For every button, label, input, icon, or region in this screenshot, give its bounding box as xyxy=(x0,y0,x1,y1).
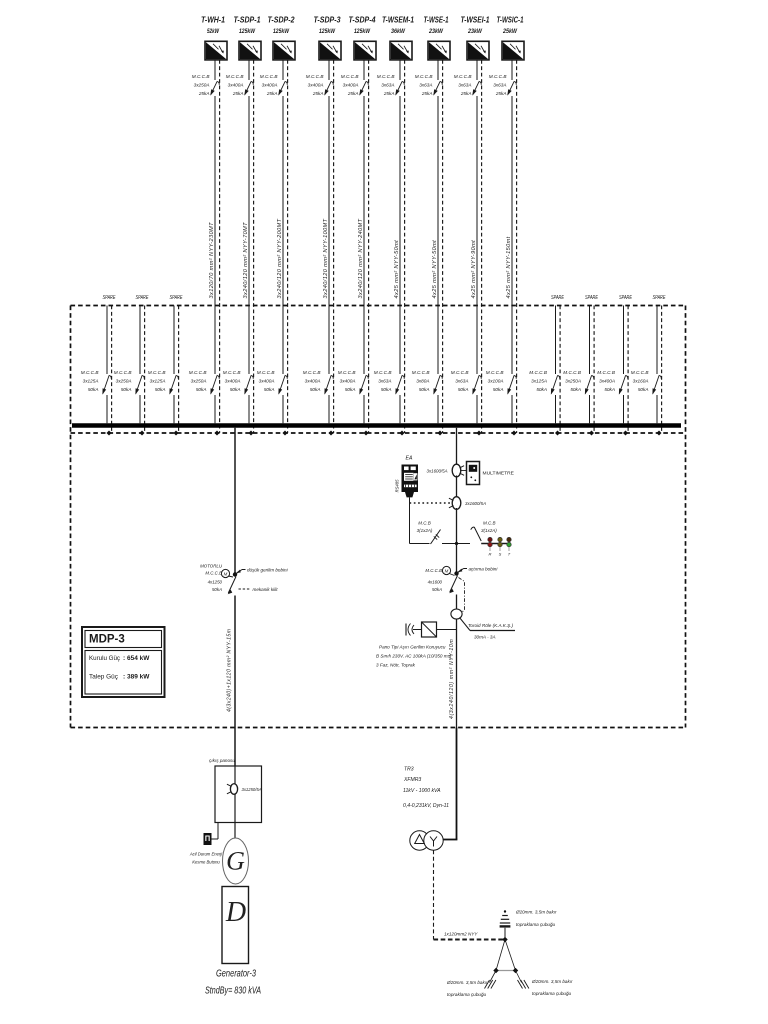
svg-text:çıkış panosu: çıkış panosu xyxy=(209,758,235,763)
svg-text:MOTORLU: MOTORLU xyxy=(200,564,223,569)
svg-text:M.C.C.B: M.C.C.B xyxy=(489,74,507,79)
svg-text:M.C.C.B: M.C.C.B xyxy=(631,370,649,375)
svg-text:3x1250/5A: 3x1250/5A xyxy=(242,787,262,792)
svg-text:25kA: 25kA xyxy=(266,91,278,96)
svg-text:M.C.C.B: M.C.C.B xyxy=(377,74,395,79)
svg-text:3x63A: 3x63A xyxy=(458,83,471,88)
svg-text:3x250A: 3x250A xyxy=(116,379,132,384)
svg-text:50kA: 50kA xyxy=(121,387,132,392)
svg-text:50kA: 50kA xyxy=(230,387,241,392)
svg-text:3(1x2A): 3(1x2A) xyxy=(417,528,433,533)
svg-text:3x240/120 mm² NYY-240MT: 3x240/120 mm² NYY-240MT xyxy=(358,218,364,298)
svg-text:25kA: 25kA xyxy=(198,91,210,96)
svg-text:125kW: 125kW xyxy=(319,28,335,35)
svg-text:M.C.C.B: M.C.C.B xyxy=(148,370,166,375)
svg-text:XFMR3: XFMR3 xyxy=(403,777,421,783)
svg-text:M.C.C.B: M.C.C.B xyxy=(415,74,433,79)
svg-text:50kA: 50kA xyxy=(345,387,356,392)
svg-text:açtırma bobini: açtırma bobini xyxy=(469,567,499,572)
svg-text:3x125A: 3x125A xyxy=(531,379,547,384)
svg-text:M.C.C.B: M.C.C.B xyxy=(529,370,547,375)
svg-text:M.C.C.B: M.C.C.B xyxy=(192,74,210,79)
svg-text:125kW: 125kW xyxy=(239,28,255,35)
svg-text:36kW: 36kW xyxy=(391,28,405,35)
svg-text:50kA: 50kA xyxy=(196,387,207,392)
svg-text:3x400A: 3x400A xyxy=(228,83,244,88)
svg-text:M.C.C.B: M.C.C.B xyxy=(341,74,359,79)
svg-text:4x25 mm² NYY-50mt: 4x25 mm² NYY-50mt xyxy=(432,240,438,299)
svg-text:mekanik kilit: mekanik kilit xyxy=(253,587,279,592)
svg-text:50kA: 50kA xyxy=(638,387,649,392)
svg-text:3x250A: 3x250A xyxy=(565,379,581,384)
svg-text:52kW: 52kW xyxy=(207,28,219,35)
svg-text:25kW: 25kW xyxy=(502,28,517,35)
svg-text:Acil Durum Enerji: Acil Durum Enerji xyxy=(189,852,223,857)
svg-text:3x400A: 3x400A xyxy=(259,379,275,384)
svg-text:4(3x240/120) mm² NYY-10m: 4(3x240/120) mm² NYY-10m xyxy=(449,639,455,719)
svg-text:M.C.C.B: M.C.C.B xyxy=(257,370,275,375)
svg-text:3x120/70 mm² NYY-230MT: 3x120/70 mm² NYY-230MT xyxy=(209,222,215,299)
svg-text:T-SDP-3: T-SDP-3 xyxy=(314,15,341,25)
svg-text:Toroid Röle (K.A.K.Ş.): Toroid Röle (K.A.K.Ş.) xyxy=(468,623,513,628)
svg-text:3x100A: 3x100A xyxy=(488,379,504,384)
svg-text:MDP-3: MDP-3 xyxy=(89,634,125,646)
svg-text:4(3x240)+1x120 mm² NYY-15m: 4(3x240)+1x120 mm² NYY-15m xyxy=(227,628,233,712)
svg-text:Generator-3: Generator-3 xyxy=(216,969,256,980)
svg-text:M.C.C.B: M.C.C.B xyxy=(451,370,469,375)
svg-text:50kA: 50kA xyxy=(419,387,430,392)
svg-text:M.C.C.B: M.C.C.B xyxy=(226,74,244,79)
svg-text:M.C.C.B: M.C.C.B xyxy=(425,568,442,573)
svg-text:25kA: 25kA xyxy=(383,91,395,96)
svg-text:4x1600: 4x1600 xyxy=(428,580,443,585)
svg-text:SPARE: SPARE xyxy=(136,295,149,301)
svg-text:T-WSE-1: T-WSE-1 xyxy=(424,15,449,25)
svg-text:50kA: 50kA xyxy=(212,587,222,592)
svg-text:G: G xyxy=(226,847,245,876)
svg-text:50kA: 50kA xyxy=(310,387,321,392)
svg-text:50kA: 50kA xyxy=(604,387,615,392)
svg-text:3x1600/5A: 3x1600/5A xyxy=(427,469,448,474)
svg-text:3x400A: 3x400A xyxy=(262,83,278,88)
svg-text:SPARE: SPARE xyxy=(585,295,598,301)
svg-text:SPARE: SPARE xyxy=(653,295,666,301)
svg-text:M.C.C.B: M.C.C.B xyxy=(81,370,99,375)
svg-text:T-WSEM-1: T-WSEM-1 xyxy=(382,15,414,25)
svg-text:Talep Güç: Talep Güç xyxy=(89,674,119,681)
svg-text:50kA: 50kA xyxy=(493,387,504,392)
svg-text:Kurulu Güç: Kurulu Güç xyxy=(89,655,121,662)
svg-text:düşük gerilim bobini: düşük gerilim bobini xyxy=(247,568,289,573)
svg-text:M.C.C.B: M.C.C.B xyxy=(205,571,222,576)
svg-text:50kA: 50kA xyxy=(570,387,581,392)
svg-text:M.C.C.B: M.C.C.B xyxy=(563,370,581,375)
svg-text:3x63A: 3x63A xyxy=(493,83,506,88)
svg-text:topraklama çubuğu: topraklama çubuğu xyxy=(447,992,487,997)
svg-text:M: M xyxy=(445,568,449,573)
svg-text:3x240/120 mm² NYY-70MT: 3x240/120 mm² NYY-70MT xyxy=(243,222,249,299)
svg-text:M.C.C.B: M.C.C.B xyxy=(486,370,504,375)
svg-text:T-SDP-4: T-SDP-4 xyxy=(349,15,376,25)
svg-text:Pano Tipi Aşırı Gerilim Koruyu: Pano Tipi Aşırı Gerilim Koruyucu xyxy=(379,645,446,650)
svg-text:3x400A: 3x400A xyxy=(343,83,359,88)
svg-text:23kW: 23kW xyxy=(428,28,443,35)
svg-text:25kA: 25kA xyxy=(312,91,324,96)
svg-text:3x240/120 mm² NYY-100MT: 3x240/120 mm² NYY-100MT xyxy=(323,218,329,298)
svg-text:T-SDP-1: T-SDP-1 xyxy=(234,15,261,25)
svg-text:4x25 mm² NYY-50mt: 4x25 mm² NYY-50mt xyxy=(394,240,400,299)
svg-text:Kesme Butonu: Kesme Butonu xyxy=(192,860,220,865)
svg-text:D: D xyxy=(225,897,246,928)
svg-text:SPARE: SPARE xyxy=(170,295,183,301)
svg-text:50kA: 50kA xyxy=(264,387,275,392)
svg-text:50kA: 50kA xyxy=(432,587,442,592)
svg-text:25kA: 25kA xyxy=(421,91,433,96)
svg-text:3x1600/5A: 3x1600/5A xyxy=(465,501,486,506)
svg-text:25kA: 25kA xyxy=(460,91,472,96)
svg-text:: 389 kW: : 389 kW xyxy=(123,674,150,681)
svg-text:3x400A: 3x400A xyxy=(225,379,241,384)
svg-text:3x63A: 3x63A xyxy=(381,83,394,88)
svg-text:3x400A: 3x400A xyxy=(305,379,321,384)
svg-text:3x125A: 3x125A xyxy=(83,379,99,384)
svg-text:50kA: 50kA xyxy=(536,387,547,392)
svg-text:4x25 mm² NYY-150mt: 4x25 mm² NYY-150mt xyxy=(506,236,512,298)
svg-text:1x120mm2 NYY: 1x120mm2 NYY xyxy=(444,932,478,937)
svg-text:50kA: 50kA xyxy=(88,387,99,392)
svg-text:M.C.C.B: M.C.C.B xyxy=(454,74,472,79)
svg-text:4x25 mm² NYY-90mt: 4x25 mm² NYY-90mt xyxy=(471,240,477,299)
svg-text:EA: EA xyxy=(406,456,413,462)
svg-text:3x400A: 3x400A xyxy=(599,379,615,384)
svg-text:125kW: 125kW xyxy=(273,28,289,35)
svg-text:M.C.C.B: M.C.C.B xyxy=(260,74,278,79)
svg-text:T-WSEI-1: T-WSEI-1 xyxy=(461,15,490,25)
svg-text:25kA: 25kA xyxy=(347,91,359,96)
svg-text:SPARE: SPARE xyxy=(103,295,116,301)
svg-text:M.C.C.B: M.C.C.B xyxy=(597,370,615,375)
svg-text:3x400A: 3x400A xyxy=(308,83,324,88)
svg-text:TR3: TR3 xyxy=(404,767,414,773)
svg-text:25kA: 25kA xyxy=(495,91,507,96)
svg-text:Ø20mm. 3,5m bakır: Ø20mm. 3,5m bakır xyxy=(515,910,557,915)
svg-text:11kV - 1000 kVA: 11kV - 1000 kVA xyxy=(403,788,441,794)
svg-text:M: M xyxy=(224,571,228,576)
svg-text:3x80A: 3x80A xyxy=(416,379,429,384)
svg-text:M.C.C.B: M.C.C.B xyxy=(374,370,392,375)
svg-text:3x63A: 3x63A xyxy=(378,379,391,384)
svg-text:3x63A: 3x63A xyxy=(419,83,432,88)
svg-text:M.C.C.B: M.C.C.B xyxy=(223,370,241,375)
svg-text:50kA: 50kA xyxy=(458,387,469,392)
svg-text:M.C.C.B: M.C.C.B xyxy=(338,370,356,375)
svg-text:125kW: 125kW xyxy=(354,28,370,35)
svg-text:SPARE: SPARE xyxy=(551,295,564,301)
svg-text:M.C.B: M.C.B xyxy=(418,521,431,526)
svg-text:3x160A: 3x160A xyxy=(633,379,649,384)
svg-text:M.C.C.B: M.C.C.B xyxy=(189,370,207,375)
svg-text:T-WH-1: T-WH-1 xyxy=(201,15,225,25)
svg-text:3x125A: 3x125A xyxy=(150,379,166,384)
svg-text:3x250A: 3x250A xyxy=(191,379,207,384)
svg-text:3 Faz, Nötr, Toprak: 3 Faz, Nötr, Toprak xyxy=(376,663,416,668)
svg-text:3x240/120 mm² NYY-200MT: 3x240/120 mm² NYY-200MT xyxy=(277,218,283,298)
svg-text:M.C.C.B: M.C.C.B xyxy=(303,370,321,375)
svg-text:T-WSIC-1: T-WSIC-1 xyxy=(497,15,524,25)
svg-text:topraklama çubuğu: topraklama çubuğu xyxy=(532,991,572,996)
svg-text:23kW: 23kW xyxy=(467,28,482,35)
svg-text:3x63A: 3x63A xyxy=(455,379,468,384)
svg-text:T-SDP-2: T-SDP-2 xyxy=(268,15,295,25)
svg-text:4x1250: 4x1250 xyxy=(208,580,223,585)
svg-text:MULTIMETRE: MULTIMETRE xyxy=(483,471,515,477)
svg-text:M.C.C.B: M.C.C.B xyxy=(412,370,430,375)
svg-text:: 654 kW: : 654 kW xyxy=(123,655,150,662)
svg-text:0,4-0,231kV, Dyn-11: 0,4-0,231kV, Dyn-11 xyxy=(403,803,449,809)
svg-text:3(1x2A): 3(1x2A) xyxy=(481,528,497,533)
svg-text:30mA - 3A: 30mA - 3A xyxy=(474,635,496,640)
svg-text:StndBy= 830 kVA: StndBy= 830 kVA xyxy=(205,985,261,997)
svg-text:S: S xyxy=(499,552,502,557)
svg-text:RS485: RS485 xyxy=(395,479,400,492)
svg-text:M.C.C.B: M.C.C.B xyxy=(306,74,324,79)
svg-text:B Sınıfı 230V. AC 100kA (10/35: B Sınıfı 230V. AC 100kA (10/350 ms) xyxy=(376,654,452,659)
svg-text:25kA: 25kA xyxy=(232,91,244,96)
svg-text:50kA: 50kA xyxy=(381,387,392,392)
svg-text:3x250A: 3x250A xyxy=(194,83,210,88)
svg-text:M.C.B: M.C.B xyxy=(483,521,496,526)
svg-text:50kA: 50kA xyxy=(155,387,166,392)
svg-text:Ø20mm. 3,5m bakır: Ø20mm. 3,5m bakır xyxy=(446,980,488,985)
svg-text:3x400A: 3x400A xyxy=(340,379,356,384)
svg-text:Ø20mm. 3,5m bakır: Ø20mm. 3,5m bakır xyxy=(531,979,573,984)
svg-text:SPARE: SPARE xyxy=(619,295,632,301)
svg-text:M.C.C.B: M.C.C.B xyxy=(114,370,132,375)
svg-text:R: R xyxy=(489,552,492,557)
svg-text:topraklama çubuğu: topraklama çubuğu xyxy=(516,922,556,927)
